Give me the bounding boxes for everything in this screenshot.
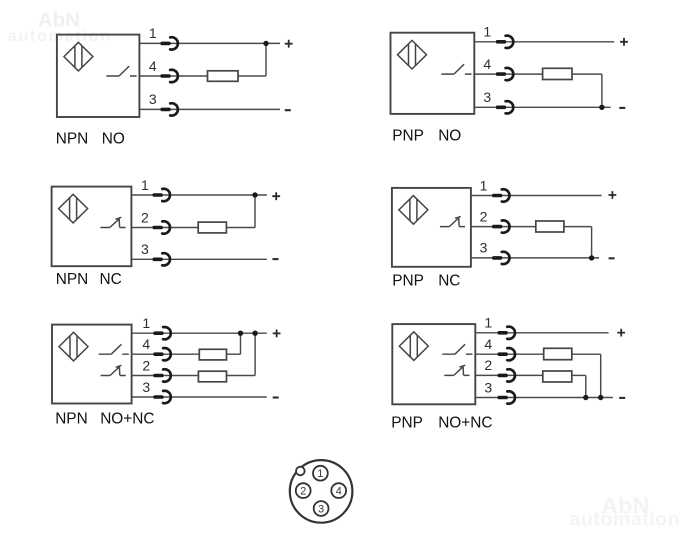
+ supply terminal (D3): [272, 192, 280, 200]
wire pin3 to - rail (D1): [139, 108, 280, 110]
wire pin1 to + rail (D2): [474, 41, 614, 43]
svg-text:NC: NC: [438, 273, 460, 290]
wire pin1 to + rail (D3): [131, 194, 267, 196]
svg-text:1: 1: [480, 177, 488, 193]
wire pin4 to load1 (D6): [475, 353, 543, 355]
load resistor RL (D2): [543, 68, 572, 79]
svg-text:1: 1: [141, 177, 149, 193]
wire node G vertical (D5): [254, 333, 256, 375]
svg-text:NO: NO: [102, 131, 125, 148]
connector contact pin 1 (D1): [160, 37, 177, 49]
NC switch contact S3: [100, 217, 125, 227]
svg-text:3: 3: [483, 89, 491, 105]
svg-text:1: 1: [149, 25, 157, 41]
sensor body box U1 (NPN NO): [57, 35, 139, 117]
svg-text:NPN: NPN: [56, 271, 89, 288]
sensor body box U2 (PNP NO): [391, 33, 475, 114]
wire load to node C (D3): [226, 227, 255, 229]
svg-text:2: 2: [141, 209, 149, 225]
connector contact pin 2 (D4): [492, 220, 509, 232]
svg-text:2: 2: [300, 486, 306, 498]
caption NPN NC: [56, 271, 122, 288]
junction node C (D3): [252, 192, 257, 197]
wire node E vertical (D4): [591, 227, 593, 258]
wire load to node A (D1): [238, 75, 266, 77]
junction node A (D1): [263, 41, 268, 46]
svg-text:3: 3: [484, 379, 492, 395]
inductive sensor symbol U3: [59, 194, 88, 223]
junction node E (D4): [589, 255, 594, 260]
load resistor RL1 (D6): [544, 348, 572, 359]
wire pin2 to load2 (D6): [475, 374, 543, 376]
watermark AbN automation top-left: [8, 9, 112, 45]
inductive sensor symbol U6: [399, 332, 428, 361]
svg-text:NO+NC: NO+NC: [438, 414, 492, 431]
svg-text:3: 3: [149, 91, 157, 107]
load resistor RL (D1): [208, 71, 239, 82]
wire pin2 to load2 (D5): [132, 375, 199, 377]
inductive sensor symbol U4: [399, 196, 428, 225]
wire node H vertical (D6): [600, 354, 602, 397]
svg-text:2: 2: [484, 357, 492, 373]
+ supply terminal (D1): [285, 40, 293, 48]
connector contact pin 3 (D3): [153, 253, 170, 265]
svg-text:3: 3: [480, 240, 488, 256]
wire pin4 to load (D2): [474, 73, 542, 75]
connector contact pin 3 (D6): [498, 391, 515, 403]
connector contact pin 2 (D6): [498, 369, 515, 381]
wire load1 to node F (D5): [227, 353, 241, 355]
wire pin3 to - rail (D3): [131, 258, 267, 260]
connector contact pin 2 (D5): [153, 369, 170, 381]
connector contact pin 4 (D5): [153, 348, 170, 360]
wire node F vertical (D5): [240, 333, 242, 354]
load resistor RL2 (D6): [543, 371, 572, 382]
wire node C vertical (D3): [254, 195, 256, 228]
caption NPN NO+NC: [55, 411, 154, 428]
wire pin3 to - rail (D2): [474, 106, 610, 108]
connector contact pin 3 (D1): [160, 103, 177, 115]
wire pin3 to - rail (D6): [475, 397, 613, 399]
wire load2 to node G (D5): [227, 375, 256, 377]
svg-text:NPN: NPN: [56, 131, 89, 148]
junction node H (D6): [598, 395, 603, 400]
load resistor RL (D4): [536, 221, 564, 232]
connector face pin 1 circle: [313, 466, 328, 481]
svg-text:4: 4: [142, 336, 150, 352]
sensor body box U6 (PNP NO+NC): [392, 324, 475, 404]
svg-text:NC: NC: [100, 271, 122, 288]
caption PNP NC: [392, 273, 460, 290]
inductive sensor symbol U5: [59, 332, 88, 361]
svg-text:PNP: PNP: [391, 414, 423, 431]
NO switch contact S6a: [442, 344, 472, 354]
svg-text:NO+NC: NO+NC: [100, 411, 154, 428]
svg-text:4: 4: [483, 56, 491, 72]
load resistor RL1 (D5): [199, 349, 226, 360]
svg-text:1: 1: [483, 24, 491, 40]
junction node G (D5): [252, 331, 257, 336]
connector contact pin 1 (D3): [153, 189, 170, 201]
connector contact pin 3 (D5): [153, 391, 170, 403]
connector keyway notch: [296, 467, 305, 476]
wire pin2 to load (D4): [471, 226, 536, 228]
connector contact pin 1 (D5): [153, 327, 170, 339]
- supply terminal (D1): [285, 109, 291, 111]
wire load to node B (D2): [572, 73, 602, 75]
NO switch contact S2: [441, 64, 471, 74]
inductive sensor symbol (diamond with lens) U1: [64, 42, 93, 71]
connector contact pin 4 (D2): [496, 68, 513, 80]
NC switch contact S6b: [444, 365, 469, 375]
- supply terminal (D6): [619, 397, 625, 399]
connector face pin 3 circle: [314, 501, 329, 516]
NO switch contact S5a: [99, 344, 129, 354]
sensor body box U5 (NPN NO+NC): [52, 325, 132, 404]
M12 connector face outer circle: [290, 460, 353, 523]
svg-text:1: 1: [484, 315, 492, 331]
svg-text:3: 3: [142, 379, 150, 395]
caption PNP NO+NC: [391, 414, 492, 431]
- supply terminal (D3): [273, 258, 279, 260]
inductive sensor symbol U2: [398, 40, 427, 69]
connector contact pin 4 (D6): [498, 348, 515, 360]
wire pin1 to + rail (D6): [475, 332, 608, 334]
connector contact pin 2 (D3): [153, 221, 170, 233]
svg-text:automation: automation: [8, 28, 112, 45]
NO switch contact S1: [106, 66, 136, 76]
+ supply terminal (D6): [617, 329, 625, 337]
caption NPN NO: [56, 131, 125, 148]
svg-text:NO: NO: [438, 128, 461, 145]
svg-text:4: 4: [149, 58, 157, 74]
wire node I vertical (D6): [585, 375, 587, 397]
wire load to node E (D4): [564, 226, 592, 228]
svg-text:automation: automation: [569, 508, 680, 530]
load resistor RL (D3): [198, 222, 226, 233]
+ supply terminal (D4): [609, 191, 617, 199]
svg-text:3: 3: [141, 241, 149, 257]
wire pin3 to - rail (D4): [471, 257, 599, 259]
sensor body box U4 (PNP NC): [392, 188, 471, 267]
wire load2 to node I (D6): [572, 374, 586, 376]
wire pin2 to load (D3): [131, 227, 198, 229]
wire pin4 to load1 (D5): [132, 353, 200, 355]
+ supply terminal (D5): [273, 330, 281, 338]
wire pin1 to + rail (D4): [471, 195, 602, 197]
watermark AbN automation bottom-right: [569, 493, 680, 531]
svg-text:PNP: PNP: [392, 128, 424, 145]
connector face pin 4 circle: [331, 483, 346, 498]
svg-text:3: 3: [318, 503, 324, 515]
wire pin1 to + rail (D5): [132, 332, 267, 334]
svg-text:1: 1: [142, 315, 150, 331]
junction node I (D6): [583, 395, 588, 400]
- supply terminal (D5): [273, 396, 279, 398]
connector contact pin 1 (D6): [498, 327, 515, 339]
connector contact pin 1 (D4): [492, 189, 509, 201]
svg-text:4: 4: [484, 336, 492, 352]
connector face pin 2 circle: [296, 483, 311, 498]
svg-text:NPN: NPN: [55, 411, 87, 428]
wire pin3 to - rail (D5): [132, 396, 267, 398]
wire pin1 to + rail (D1): [139, 42, 280, 44]
caption PNP NO: [392, 128, 461, 145]
junction node F (D5): [238, 331, 243, 336]
load resistor RL2 (D5): [198, 371, 226, 382]
wire node B vertical (D2): [601, 74, 603, 107]
sensor body box U3 (NPN NC): [52, 187, 132, 267]
NC switch contact S4: [440, 216, 465, 226]
connector contact pin 3 (D4): [492, 252, 509, 264]
svg-text:1: 1: [317, 468, 323, 480]
junction node B (D2): [599, 105, 604, 110]
wire pin4 to load (D1): [139, 75, 207, 77]
- supply terminal (D2): [619, 107, 625, 109]
svg-text:2: 2: [480, 208, 488, 224]
connector contact pin 3 (D2): [496, 101, 513, 113]
connector contact pin 1 (D2): [496, 36, 513, 48]
wire node A vertical (D1): [265, 43, 267, 76]
svg-text:PNP: PNP: [392, 273, 424, 290]
svg-text:4: 4: [336, 486, 342, 498]
+ supply terminal (D2): [620, 38, 628, 46]
wire load1 to node H (D6): [572, 353, 601, 355]
NC switch contact S5b: [101, 365, 126, 375]
connector contact pin 4 (D1): [160, 70, 177, 82]
- supply terminal (D4): [609, 257, 615, 259]
svg-text:2: 2: [142, 357, 150, 373]
